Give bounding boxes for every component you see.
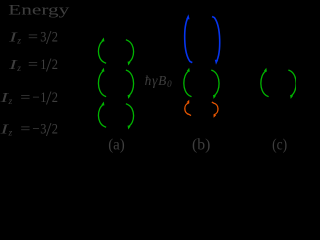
green up-arrow (a) gap 1/2 to -1/2 <box>98 68 106 97</box>
column caption (a) <box>108 136 125 153</box>
blue up-arrow (b) enlarged upper satellite gap <box>185 14 193 62</box>
green up-arrow (b) central transition <box>184 68 192 97</box>
svg-text:(b): (b) <box>192 136 210 153</box>
green up-arrow (a) gap -1/2 to -3/2 <box>98 102 106 128</box>
axis title: Energy <box>8 3 70 19</box>
green down-arrow (a) gap 1/2 to -1/2 <box>126 70 134 99</box>
green down-arrow (a) gap -1/2 to -3/2 <box>126 104 134 130</box>
green up-arrow (a) gap 3/2 to 1/2 <box>98 38 106 64</box>
orange down-arrow (b) reduced lower satellite gap <box>212 102 218 118</box>
green down-arrow (a) gap 3/2 to 1/2 <box>126 40 134 66</box>
svg-text:(a): (a) <box>108 136 125 153</box>
level label Iz = -1/2 <box>0 88 58 110</box>
green up-arrow (c) central transition <box>261 68 269 97</box>
column caption (b) <box>192 136 210 153</box>
orange up-arrow (b) reduced lower satellite gap <box>185 100 191 116</box>
green down-arrow (c) central transition, clipped at right edge <box>288 70 296 99</box>
svg-text:(c): (c) <box>272 136 287 153</box>
Zeeman splitting energy label: hbar gamma B0 <box>145 73 173 89</box>
level label Iz = -3/2 <box>0 119 58 141</box>
level label Iz = 1/2 <box>8 55 58 77</box>
blue down-arrow (b) enlarged upper satellite gap <box>212 17 220 65</box>
column caption (c) <box>272 136 287 153</box>
green down-arrow (b) central transition <box>211 70 219 99</box>
svg-text:Energy: Energy <box>8 3 70 19</box>
level label Iz = 3/2 <box>8 27 58 49</box>
